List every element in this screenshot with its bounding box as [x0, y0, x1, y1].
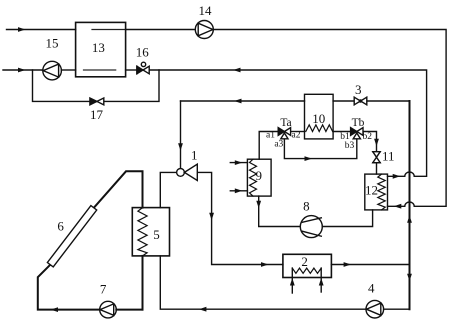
- wire compressor 8 to exchanger 12 bottom: [322, 210, 372, 227]
- ejector 1 nozzle triangle: [184, 164, 197, 180]
- svg-text:b3: b3: [345, 141, 355, 151]
- svg-text:5: 5: [153, 227, 160, 242]
- solar collector 6: [47, 206, 96, 267]
- svg-text:6: 6: [57, 219, 64, 234]
- arrow right stub lower box9: [235, 188, 243, 193]
- zigzag coil in box 12: [378, 174, 385, 210]
- arrow left on valve3 line: [234, 99, 242, 104]
- wire evaporator 9 top to valve Ta a1: [259, 132, 278, 160]
- svg-text:11: 11: [382, 149, 395, 164]
- wire solar loop: pump7 line and collector riser: [38, 171, 143, 309]
- zigzag coil in box 2: [292, 268, 321, 273]
- wire collector diagonal under panel: [50, 208, 94, 265]
- check valve 17: [90, 98, 104, 105]
- wire pump15 to tank13: [61, 69, 75, 71]
- wire top line left into tank 13: [7, 29, 76, 31]
- svg-text:7: 7: [100, 281, 107, 296]
- wire box10 to Tb b1: [333, 131, 351, 133]
- arrow down box9 to compressor: [256, 201, 261, 209]
- svg-text:2: 2: [301, 254, 308, 269]
- valve 16 with actuator: [137, 62, 149, 74]
- zigzag coil in box 10: [306, 125, 333, 132]
- svg-text:10: 10: [312, 111, 325, 126]
- svg-text:a3: a3: [274, 139, 283, 149]
- arrow down ejector outlet line: [209, 213, 214, 221]
- svg-text:3: 3: [355, 82, 362, 97]
- svg-text:17: 17: [90, 107, 104, 122]
- svg-text:a2: a2: [292, 131, 301, 141]
- wire right main vertical: [409, 101, 411, 309]
- svg-text:13: 13: [92, 40, 105, 55]
- wire Ta a2 to box 10: [291, 131, 305, 133]
- svg-text:8: 8: [303, 199, 310, 214]
- wire tank13 internal bottom segment: [84, 69, 116, 71]
- tank 13: [76, 22, 126, 76]
- wire top line tank13 to pump14: [126, 29, 196, 31]
- three-way valve Ta: [278, 128, 290, 139]
- arrow right on a3-b3 line: [305, 156, 313, 161]
- wire condenser 2 out right to main vertical: [331, 264, 409, 266]
- arrow up condenser stub left: [290, 278, 295, 286]
- svg-text:Tb: Tb: [352, 117, 365, 129]
- svg-text:Ta: Ta: [280, 117, 291, 129]
- wire condenser 2 bottom stub right: [320, 268, 322, 292]
- wire tank13 to valve16: [126, 69, 137, 71]
- flow arrows: [18, 27, 412, 312]
- svg-text:15: 15: [46, 36, 59, 51]
- arrow left pump7 line: [51, 307, 59, 312]
- pump 4: [366, 300, 384, 318]
- arrow right box12 top outlet: [393, 174, 401, 179]
- arrow right on top line: [18, 27, 26, 32]
- evaporator 9: [247, 159, 271, 196]
- arrow down into ejector 1: [178, 143, 183, 151]
- generator 5: [132, 208, 169, 256]
- svg-text:12: 12: [365, 182, 378, 197]
- arrow up condenser stub right: [319, 278, 324, 286]
- svg-text:9: 9: [256, 168, 263, 183]
- wire external stub upper into evaporator 9: [230, 162, 247, 164]
- wire valve 3 to right corner: [367, 100, 410, 102]
- arrow left on long return line: [233, 68, 241, 73]
- wire condenser 2 bottom stub left: [291, 268, 293, 293]
- wire ejector left to generator 5 top: [160, 172, 176, 207]
- arrow right into condenser 2: [261, 262, 269, 267]
- compressor 8: [300, 216, 322, 238]
- svg-text:1: 1: [191, 148, 198, 163]
- pump 15: [43, 61, 62, 80]
- valve 11: [373, 152, 380, 163]
- pump 7: [100, 301, 117, 318]
- svg-text:16: 16: [136, 45, 150, 60]
- valve 3: [354, 97, 367, 105]
- zigzag coil in box 9: [250, 159, 257, 196]
- arrow up on main vertical: [407, 215, 412, 223]
- heat exchanger 10: [305, 94, 334, 139]
- wire vertical into ejector 1: [180, 101, 182, 169]
- wire bottom right line with pump 4: [160, 256, 409, 309]
- svg-text:b2: b2: [363, 132, 373, 142]
- wire pump14 to right edge down to heat exchanger 12 bottom: [213, 30, 446, 207]
- arrow down to valve 11: [374, 139, 379, 147]
- svg-text:4: 4: [368, 281, 375, 296]
- wire ejector feed line to valve 3 corner down: [181, 100, 305, 102]
- svg-text:14: 14: [199, 3, 213, 18]
- ejector 1 circle: [177, 169, 185, 177]
- wire second line left into pump 15: [3, 69, 43, 71]
- heat exchanger 12: [365, 174, 388, 210]
- wire external stub lower into evaporator 9: [230, 190, 247, 192]
- wire box10 right to valve 3: [333, 100, 354, 102]
- wire tank13 internal top segment: [92, 29, 126, 31]
- wire Ta a3 to Tb b3 under box 10: [284, 139, 356, 159]
- arrow right on second line: [18, 68, 26, 73]
- arrow down on main vertical: [407, 274, 412, 282]
- arrow right stub upper box9: [235, 160, 243, 165]
- wire bypass loop with valve 17: [33, 70, 160, 101]
- wire evaporator 9 bottom to compressor 8: [259, 196, 301, 226]
- arrow right out of condenser 2: [344, 262, 352, 267]
- wire generator 5 coil exit down to pump7 line: [142, 256, 144, 310]
- arrow left into box12 bottom: [394, 204, 402, 209]
- three-way valve Tb: [351, 128, 363, 139]
- wire valve16 right to corner down to exchanger 12 top: [149, 70, 426, 176]
- wire ejector right down to condenser 2: [197, 172, 283, 264]
- arrow left bottom right line: [199, 307, 207, 312]
- wire Tb b2 to valve 11 down to exchanger 12: [363, 132, 377, 175]
- condenser 2: [283, 254, 332, 277]
- pump 14: [195, 21, 213, 39]
- zigzag coil in box 5: [138, 208, 147, 256]
